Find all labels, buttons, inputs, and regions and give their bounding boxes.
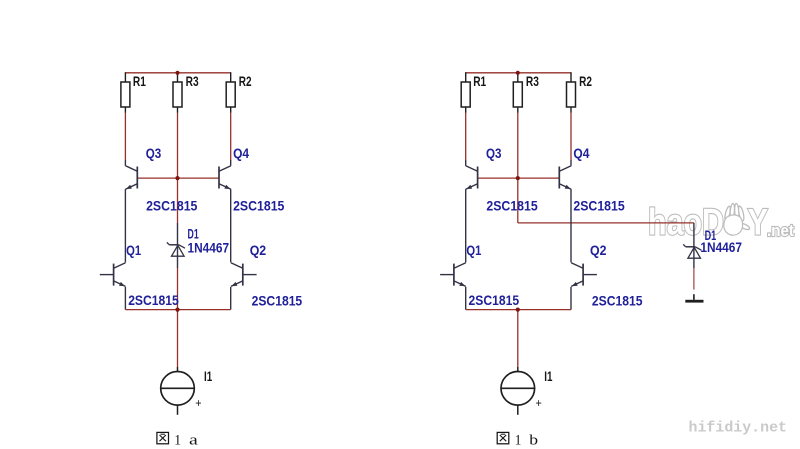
resistor R3 (b) <box>513 82 522 107</box>
transistor Q4 (a) <box>219 166 231 190</box>
wire Q4 emitter to Q2 collector (b) <box>570 189 572 262</box>
wire D1 to ground (b) <box>693 268 695 290</box>
node top junction (b) <box>516 71 520 75</box>
wire Q2 base lead (b) <box>583 274 597 276</box>
svg-text:I1: I1 <box>544 369 552 384</box>
wire R3 top pin (a) <box>177 73 179 83</box>
svg-text:Y: Y <box>748 202 769 243</box>
svg-text:2SC1815: 2SC1815 <box>469 293 520 308</box>
svg-text:Q3: Q3 <box>486 146 502 161</box>
svg-text:a: a <box>189 433 198 449</box>
wire I1 top pin (a) <box>177 367 179 372</box>
svg-text:1N4467: 1N4467 <box>188 240 230 255</box>
svg-text:Q1: Q1 <box>126 243 141 258</box>
svg-text:Q4: Q4 <box>573 146 589 161</box>
resistor R1 (b) <box>461 82 470 107</box>
svg-text:+: + <box>195 396 201 410</box>
wire I1 bottom pin (b) <box>517 405 519 415</box>
wire R3 top pin (b) <box>517 73 519 83</box>
svg-text:hifidiy.net: hifidiy.net <box>689 420 788 436</box>
wire base bus Q3-Q4 (a) <box>137 177 219 179</box>
wire R2 top pin (a) <box>230 72 232 82</box>
wire R3 bottom pin (a) <box>177 107 179 113</box>
wire tail to I1 (b) <box>517 310 519 367</box>
wire R3 bottom pin (b) <box>517 107 519 113</box>
wire R1 bottom pin (a) <box>124 107 126 113</box>
svg-text:R1: R1 <box>473 74 486 89</box>
caption 图 glyph (b) <box>497 432 509 443</box>
svg-text:R1: R1 <box>133 74 146 89</box>
svg-text:.net: .net <box>767 222 794 240</box>
svg-text:2SC1815: 2SC1815 <box>233 199 285 214</box>
wire R1 top pin (a) <box>124 72 126 82</box>
svg-text:+: + <box>536 396 542 410</box>
svg-text:1: 1 <box>515 432 522 448</box>
transistor Q2 (a) <box>231 263 243 287</box>
wire R2 bottom pin (a) <box>230 107 232 113</box>
svg-text:I1: I1 <box>204 369 212 384</box>
wire emitter bus (a) <box>125 309 230 311</box>
wire D1 anode lead (b) <box>693 223 695 268</box>
current source I1 (a) <box>160 372 195 406</box>
wire Q4 collector pin (b) <box>570 160 572 166</box>
diode D1 (a) (zener) <box>167 242 185 256</box>
wire top bus (b) <box>466 72 571 74</box>
node base junction (b) <box>516 176 520 180</box>
wire R1 top pin (b) <box>465 72 467 82</box>
svg-text:Q2: Q2 <box>250 243 267 258</box>
svg-text:Q3: Q3 <box>146 146 162 161</box>
svg-text:2SC1815: 2SC1815 <box>592 293 643 308</box>
wire Q1 emitter drop (a) <box>124 287 126 310</box>
wire elbow to D1 (b) <box>518 222 694 224</box>
wire Q1 emitter drop (b) <box>465 287 467 310</box>
svg-text:2SC1815: 2SC1815 <box>252 293 303 308</box>
wire base node to D1 (a) <box>177 178 179 223</box>
transistor Q1 (a) <box>114 263 126 287</box>
current source I1 (b) <box>501 372 536 406</box>
wire Q2 base lead (a) <box>243 274 257 276</box>
wire Q3 collector pin (a) <box>124 160 126 166</box>
transistor Q4 (b) <box>559 166 571 190</box>
resistor R2 (a) <box>226 82 235 107</box>
wire R1 to Q3 collector (b) <box>465 113 467 161</box>
wire R2 top pin (b) <box>570 72 572 82</box>
svg-text:Q4: Q4 <box>233 146 249 161</box>
svg-text:2SC1815: 2SC1815 <box>146 198 198 213</box>
wire R3 to base node (b) <box>517 113 519 179</box>
wire I1 top pin (b) <box>517 367 519 372</box>
svg-text:b: b <box>529 433 538 449</box>
resistor R1 (a) <box>121 82 130 107</box>
wire R1 bottom pin (b) <box>465 107 467 113</box>
wire D1 to tail node (a) <box>177 268 179 310</box>
wire Q1 base lead (b) <box>440 274 454 276</box>
node base junction (a) <box>175 176 179 180</box>
transistor Q3 (a) <box>125 166 137 190</box>
svg-text:Q2: Q2 <box>590 243 607 258</box>
wire Q3 collector pin (b) <box>465 160 467 166</box>
wire Q2 emitter drop (b) <box>570 287 572 310</box>
svg-text:2SC1815: 2SC1815 <box>486 198 538 213</box>
watermark haoDIY.net <box>648 202 794 243</box>
transistor Q2 (b) <box>571 263 583 287</box>
node tail junction (b) <box>516 308 520 312</box>
resistor R3 (a) <box>173 82 182 107</box>
wire Q1 base lead (a) <box>100 274 114 276</box>
wire R2 to Q4 collector (a) <box>230 113 232 161</box>
wire R2 bottom pin (b) <box>570 107 572 113</box>
wire top bus (a) <box>125 72 230 74</box>
node top junction (a) <box>175 71 179 75</box>
svg-text:R2: R2 <box>579 74 592 89</box>
svg-text:D1: D1 <box>188 227 199 242</box>
caption 图 glyph (a) <box>157 432 169 443</box>
wire I1 bottom pin (a) <box>177 405 179 415</box>
svg-text:1: 1 <box>174 432 181 448</box>
transistor Q1 (b) <box>454 263 466 287</box>
svg-text:Q1: Q1 <box>466 243 481 258</box>
transistor Q3 (b) <box>466 166 478 190</box>
wire R3 to base node (a) <box>177 113 179 179</box>
ground <box>685 294 703 302</box>
wire tail to I1 (a) <box>177 310 179 367</box>
wire Q3 emitter to Q1 collector (b) <box>465 189 467 262</box>
wire emitter bus (b) <box>466 309 571 311</box>
svg-text:R2: R2 <box>239 74 252 89</box>
wire base bus Q3-Q4 (b) <box>478 177 560 179</box>
wire Q3 emitter to Q1 collector (a) <box>124 189 126 262</box>
svg-text:2SC1815: 2SC1815 <box>128 293 179 308</box>
svg-text:2SC1815: 2SC1815 <box>573 199 625 214</box>
svg-text:R3: R3 <box>186 74 199 89</box>
svg-text:1N4467: 1N4467 <box>700 240 742 255</box>
wire Q2 emitter drop (a) <box>230 287 232 310</box>
wire D1 anode lead (a) <box>177 223 179 268</box>
wire base node down to elbow (b) <box>517 178 519 223</box>
wire Q4 emitter to Q2 collector (a) <box>230 189 232 262</box>
node tail junction (a) <box>175 308 179 312</box>
wire Q4 collector pin (a) <box>230 160 232 166</box>
svg-text:R3: R3 <box>526 74 539 89</box>
resistor R2 (b) <box>567 82 576 107</box>
wire R2 to Q4 collector (b) <box>570 113 572 161</box>
diode D1 (b) (zener) <box>683 244 701 258</box>
wire R1 to Q3 collector (a) <box>124 113 126 161</box>
